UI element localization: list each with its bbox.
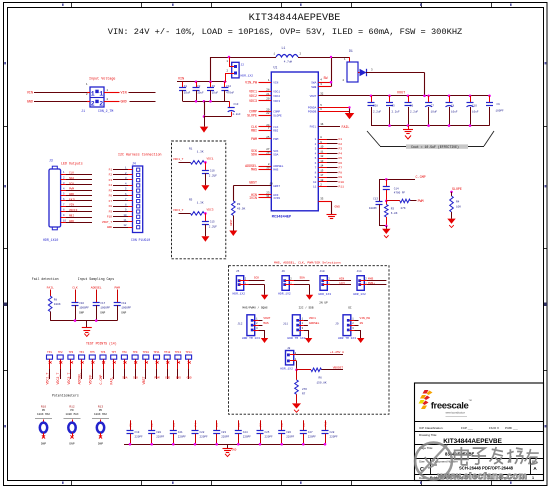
- node SW label: [324, 76, 328, 80]
- svg-text:VDCFF: VDCFF: [69, 209, 78, 212]
- svg-text:R12: R12: [69, 406, 74, 409]
- svg-text:VDC1: VDC1: [273, 91, 280, 94]
- capacitor C2 10uF: [193, 82, 205, 102]
- svg-text:11: 11: [313, 186, 317, 189]
- svg-text:100K: 100K: [54, 303, 61, 306]
- wire J4 pin 4 F4: [109, 182, 133, 187]
- svg-text:Cout = 10.5uF (EFFECTIVE): Cout = 10.5uF (EFFECTIVE): [411, 145, 459, 149]
- svg-text:MHS+: MHS+: [368, 282, 375, 285]
- resistor R8 100K: [48, 290, 60, 321]
- svg-text:4700 PF: 4700 PF: [394, 192, 406, 195]
- capacitor C14 4700PF: [383, 179, 406, 201]
- svg-text:SLOPE: SLOPE: [273, 114, 282, 117]
- svg-text:1: 1: [532, 476, 534, 480]
- svg-text:SCK: SCK: [133, 377, 138, 380]
- svg-text:F9: F9: [339, 176, 343, 179]
- svg-text:DNP: DNP: [79, 312, 84, 315]
- inductor L1 4.7uH: [273, 46, 301, 64]
- resistor R3 6.8K: [385, 201, 398, 226]
- jumper J11: [283, 315, 320, 343]
- svg-text:6.8K: 6.8K: [391, 212, 398, 215]
- svg-text:L1: L1: [282, 46, 286, 50]
- svg-text:F9: F9: [109, 210, 113, 213]
- svg-text:F7: F7: [339, 167, 343, 170]
- capacitor C19 220PF: [127, 420, 143, 444]
- dashed box VDC dividers: [172, 141, 226, 259]
- svg-text:J14: J14: [357, 270, 362, 273]
- wire J3 pin 4 PWM: [61, 187, 92, 190]
- test point TP11: [153, 351, 160, 380]
- svg-text:GND: GND: [176, 377, 181, 380]
- svg-text:19: 19: [270, 183, 274, 186]
- svg-text:PWM: PWM: [251, 137, 257, 141]
- U1 pin 31 IVIN: [249, 195, 271, 200]
- svg-text:32: 32: [320, 92, 324, 95]
- wire J4 pin 12 GND: [107, 224, 133, 229]
- test point TP13: [175, 351, 182, 380]
- svg-text:MHS, ADDSEL, CLK, PWM/SCK Sele: MHS, ADDSEL, CLK, PWM/SCK Selections: [274, 261, 341, 265]
- wire VOUT caps bottom rail: [371, 125, 490, 127]
- title block drawing title: [419, 433, 503, 445]
- svg-text:J6: J6: [282, 270, 286, 273]
- wire J3 pin 5 GND: [61, 193, 92, 196]
- svg-text:C.CMP: C.CMP: [99, 375, 103, 385]
- resistor R7 27K: [295, 370, 308, 404]
- svg-text:10K: 10K: [456, 206, 461, 209]
- U1 pin 5 PGNDA wire: [318, 104, 349, 108]
- node FAIL sampling: [47, 287, 54, 290]
- op-amp U1 MC34844EP body: [271, 66, 318, 220]
- svg-text:HDR_1X2: HDR_1X2: [353, 293, 366, 296]
- label TEST POINTS: [86, 341, 117, 345]
- wire J4 pin 11 VOUT_T: [102, 219, 133, 224]
- wire J1 pin1 VIN right: [104, 91, 156, 95]
- U1 pin 23 HIN: [251, 192, 271, 197]
- svg-text:DNP: DNP: [121, 312, 126, 315]
- U1 LED pin 17 wire F9: [318, 174, 342, 179]
- svg-text:GND: GND: [69, 193, 74, 196]
- svg-text:2.2UF: 2.2UF: [209, 226, 217, 229]
- svg-text:VIN: VIN: [178, 78, 184, 82]
- U1 pin 28 VDC1: [249, 89, 271, 94]
- svg-text:MHS: MHS: [263, 322, 268, 325]
- svg-text:1: 1: [99, 90, 103, 97]
- label Potentiometers: [52, 394, 79, 398]
- capacitor C22 220PF: [192, 420, 208, 444]
- svg-text:C1: C1: [184, 85, 188, 88]
- svg-text:2N UP: 2N UP: [319, 302, 328, 305]
- dashed box selections: [229, 266, 390, 415]
- svg-text:C28: C28: [373, 105, 378, 108]
- svg-text:FAIL: FAIL: [110, 377, 114, 385]
- wire J2 pin2 to VIN rail: [225, 73, 227, 82]
- jumper J5: [233, 270, 269, 300]
- svg-text:R3: R3: [391, 207, 395, 210]
- wire J4 pin 5 F5: [109, 188, 133, 193]
- watermark elecfans: [415, 443, 539, 482]
- svg-text:F8: F8: [339, 171, 343, 174]
- svg-text:FAIL: FAIL: [47, 287, 54, 290]
- svg-text:18: 18: [320, 179, 324, 182]
- svg-text:220PF: 220PF: [178, 436, 186, 439]
- svg-text:F11: F11: [339, 186, 345, 189]
- svg-text:100PF: 100PF: [496, 109, 504, 112]
- wire J2 pin1 drop: [229, 57, 231, 67]
- U1 LED pin 18 wire F10: [318, 179, 344, 184]
- svg-text:C10: C10: [210, 170, 215, 173]
- junction R5: [204, 212, 207, 215]
- title text KIT34844AEPEVBE: [249, 13, 341, 24]
- svg-text:220PF: 220PF: [330, 436, 338, 439]
- svg-text:10uF: 10uF: [472, 111, 479, 114]
- svg-text:VIN: VIN: [121, 91, 127, 95]
- svg-text:F3: F3: [339, 148, 343, 151]
- svg-text:49.9K: 49.9K: [237, 208, 246, 211]
- label LED Outputs: [61, 162, 83, 166]
- node ADDSEL sampling: [91, 287, 102, 290]
- svg-text:R7: R7: [302, 393, 306, 396]
- svg-text:R5: R5: [189, 198, 193, 201]
- jumper J10: [319, 270, 352, 296]
- svg-text:J9: J9: [335, 322, 339, 325]
- subtitle operating conditions: [108, 27, 463, 37]
- ground sampling caps: [82, 321, 92, 337]
- U1 pin 25 PWM: [251, 136, 271, 141]
- ground R9: [229, 231, 237, 237]
- junction ground node: [203, 115, 206, 118]
- U1 LED pin 14 wire F7: [318, 165, 342, 170]
- junction bottom caps rail: [129, 443, 327, 446]
- svg-text:Fail detection: Fail detection: [32, 277, 59, 281]
- svg-text:C16: C16: [79, 302, 84, 305]
- capacitor C28 220PF: [322, 420, 338, 444]
- svg-text:J11: J11: [283, 322, 288, 325]
- svg-text:HDR_1X3: HDR_1X3: [319, 293, 332, 296]
- svg-text:SLOPE: SLOPE: [452, 187, 462, 191]
- U1 internal pin names: [273, 81, 316, 200]
- svg-text:GND: GND: [107, 226, 112, 229]
- ground comp: [382, 229, 390, 238]
- svg-text:J5: J5: [236, 270, 240, 273]
- svg-text:DNP: DNP: [98, 442, 103, 445]
- label selections box title: [274, 261, 341, 265]
- svg-text:GND: GND: [232, 449, 237, 452]
- svg-text:SW: SW: [324, 76, 328, 80]
- svg-text:220PF: 220PF: [265, 436, 273, 439]
- wire J3 pin 1 CLK: [61, 171, 92, 174]
- svg-text:SLOPE: SLOPE: [247, 113, 257, 117]
- svg-text:(2V): (2V): [339, 281, 346, 285]
- svg-text:DNP: DNP: [41, 442, 46, 445]
- ground input caps: [200, 117, 209, 133]
- svg-text:SDA: SDA: [273, 154, 278, 157]
- svg-text:100K MAX: 100K MAX: [94, 413, 107, 416]
- svg-text:VDC1: VDC1: [309, 317, 316, 320]
- svg-text:ADDSEL: ADDSEL: [309, 322, 320, 325]
- label I2C Harness Connection: [118, 153, 162, 157]
- svg-text:PGNDB: PGNDB: [308, 111, 317, 114]
- U1 LED pin 2 wire F11: [318, 184, 344, 189]
- svg-text:10uF: 10uF: [212, 92, 219, 95]
- svg-text:C14: C14: [394, 187, 399, 190]
- junction on bottom rail: [195, 100, 212, 103]
- svg-text:DI: DI: [348, 306, 352, 309]
- svg-text:C24: C24: [243, 431, 248, 434]
- svg-text:U1: U1: [274, 66, 278, 70]
- svg-text:F2: F2: [339, 143, 343, 146]
- capacitor C1 10uF: [179, 82, 191, 102]
- svg-text:C22: C22: [200, 431, 205, 434]
- svg-text:PD: PD: [42, 409, 46, 412]
- svg-text:C13: C13: [373, 197, 378, 200]
- label Fail detection: [32, 277, 59, 281]
- annotation brace Cout: [367, 131, 494, 149]
- capacitor C13 2.2uF: [228, 101, 241, 116]
- svg-text:TP5: TP5: [90, 351, 95, 354]
- test point TP4: [78, 351, 85, 385]
- ground VOUT caps: [403, 126, 413, 139]
- junction PGND: [348, 106, 350, 108]
- U1 pin 30 MHS: [251, 166, 271, 171]
- svg-text:VIN_PW: VIN_PW: [360, 317, 371, 320]
- svg-text:1000PF: 1000PF: [100, 307, 110, 310]
- svg-text:J8: J8: [287, 347, 291, 350]
- svg-text:TP4: TP4: [79, 351, 84, 354]
- wire J4 pin 8 F8: [109, 203, 133, 208]
- connector J2 HDR_1X2: [225, 60, 253, 78]
- wire J4 pin 2 F2: [109, 172, 133, 177]
- svg-text:11: 11: [320, 150, 324, 153]
- title block date sheet row: [419, 476, 534, 480]
- svg-text:VDC1_T: VDC1_T: [173, 158, 184, 161]
- node CLK sampling: [72, 287, 78, 290]
- wire J3 pin 9 RBI: [61, 214, 92, 218]
- U1 pin 27 SCK: [251, 148, 271, 153]
- svg-text:16: 16: [320, 123, 324, 126]
- capacitor C24 220PF: [235, 420, 251, 444]
- node GBST vertical label: [230, 219, 233, 226]
- wire GND to J1 pin2: [34, 101, 90, 103]
- capacitor C9 100PF: [486, 96, 504, 126]
- svg-text:TP3: TP3: [69, 351, 74, 354]
- svg-text:J10: J10: [320, 270, 325, 273]
- svg-text:J3: J3: [49, 159, 53, 163]
- svg-text:VDC2: VDC2: [273, 95, 280, 98]
- svg-text:26: 26: [266, 151, 270, 154]
- U1 pin 8 ADDSEL: [245, 163, 271, 168]
- U1 LED pin 8 wire F1: [318, 136, 342, 141]
- svg-text:21: 21: [266, 93, 270, 96]
- svg-text:F10: F10: [107, 216, 112, 219]
- svg-text:C25: C25: [265, 431, 270, 434]
- svg-text:C27: C27: [308, 431, 313, 434]
- capacitor C26 220PF: [278, 420, 294, 444]
- U1 pin 32 VOUT wire rail: [318, 92, 489, 95]
- svg-text:GND: GND: [165, 377, 170, 380]
- svg-text:4.7uH: 4.7uH: [284, 61, 293, 64]
- svg-text:TP6: TP6: [101, 351, 106, 354]
- wire J1 pin2 GND right: [104, 101, 156, 105]
- jumper J14: [353, 270, 386, 296]
- title block frame: [415, 383, 544, 481]
- svg-text:MHS: MHS: [368, 278, 373, 281]
- svg-text:SWB: SWB: [311, 86, 316, 89]
- svg-text:F4: F4: [339, 152, 343, 155]
- svg-text:TP7: TP7: [111, 351, 116, 354]
- svg-text:CLK: CLK: [69, 172, 74, 175]
- svg-text:Input Voltage: Input Voltage: [89, 77, 115, 82]
- svg-text:30: 30: [266, 166, 270, 169]
- svg-text:TP11: TP11: [153, 351, 160, 354]
- ground U1 GND pin: [327, 215, 337, 219]
- svg-text:10: 10: [313, 181, 317, 184]
- capacitor C20 220PF: [148, 420, 164, 444]
- svg-text:PWM: PWM: [273, 138, 278, 141]
- svg-text:KIT34844AEPEVBE: KIT34844AEPEVBE: [443, 438, 502, 445]
- wire J3 pin 8 VDCFF: [61, 209, 92, 212]
- svg-text:VDCFF: VDCFF: [88, 375, 92, 385]
- test point TP8: [121, 351, 127, 380]
- svg-text:VDC3: VDC3: [273, 100, 280, 103]
- svg-text:HDR TM 1X3: HDR TM 1X3: [338, 337, 356, 340]
- svg-text:TP12: TP12: [164, 351, 171, 354]
- svg-text:100K MAX: 100K MAX: [66, 413, 79, 416]
- svg-text:R1: R1: [189, 147, 193, 150]
- svg-text:MHS: MHS: [251, 168, 257, 172]
- svg-text:Input Sampling Caps: Input Sampling Caps: [78, 277, 114, 281]
- svg-text:1.3K: 1.3K: [197, 151, 204, 154]
- svg-text:GBST: GBST: [273, 185, 280, 188]
- junction SW-D1: [330, 56, 332, 58]
- potentiometer R10 100K: [35, 406, 52, 446]
- capacitor C18 1000PF: [114, 290, 132, 321]
- svg-text:DNP: DNP: [100, 312, 105, 315]
- U1 pin 7 RBI: [251, 127, 271, 132]
- svg-text:2.2uF: 2.2uF: [392, 111, 400, 114]
- svg-text:VDC1_T: VDC1_T: [46, 373, 50, 385]
- ground PGND: [345, 113, 355, 119]
- svg-text:GBST: GBST: [249, 181, 257, 185]
- junction sampling rail: [74, 319, 98, 322]
- svg-text:1000PF: 1000PF: [79, 307, 89, 310]
- svg-text:29: 29: [266, 109, 270, 112]
- svg-text:C3: C3: [212, 85, 216, 88]
- svg-text:RBI: RBI: [251, 128, 257, 132]
- svg-text:C23: C23: [221, 431, 226, 434]
- U1 LED pin 12 wire F5: [318, 155, 342, 160]
- node PWM sampling: [114, 287, 120, 290]
- resistor R9 49.9K: [232, 201, 246, 216]
- wire J3 pin 6 FAIL: [61, 198, 92, 201]
- node VOUT label: [397, 91, 405, 95]
- U1 pin 6 PGNDB wire: [318, 108, 349, 112]
- svg-text:TP8: TP8: [122, 351, 127, 354]
- wire ground drop: [204, 101, 206, 116]
- U1 LED pin 13 wire F6: [318, 160, 342, 165]
- junction VOUT rail: [370, 95, 491, 98]
- test point TP9: [132, 351, 138, 380]
- svg-text:11: 11: [123, 219, 127, 222]
- svg-text:IVIN: IVIN: [249, 196, 257, 200]
- svg-text:R6: R6: [319, 376, 323, 379]
- capacitor C16 1000PF: [72, 290, 90, 321]
- svg-text:220PF: 220PF: [200, 436, 208, 439]
- svg-text:10: 10: [63, 219, 67, 222]
- svg-text:220PF: 220PF: [156, 436, 164, 439]
- svg-text:C13: C13: [234, 103, 239, 106]
- svg-text:HDR_1X10: HDR_1X10: [43, 238, 58, 242]
- label Input Sampling Caps: [78, 277, 114, 281]
- svg-text:VIN: VIN: [273, 81, 278, 84]
- svg-text:ADDSEL: ADDSEL: [78, 373, 82, 385]
- wire to C13: [204, 116, 231, 118]
- U1 pin 21 VDC2: [249, 93, 271, 98]
- svg-text:+1.25V A: +1.25V A: [330, 351, 344, 354]
- svg-text:C19: C19: [135, 431, 140, 434]
- wire J4 pin 3 F3: [109, 177, 133, 182]
- svg-text:15: 15: [320, 169, 324, 172]
- svg-text:VDC2: VDC2: [249, 94, 257, 98]
- svg-text:VDC3_T: VDC3_T: [67, 373, 71, 385]
- svg-text:TP2: TP2: [58, 351, 63, 354]
- svg-text:17: 17: [320, 174, 324, 177]
- U1 pin 4 SWA wire: [318, 79, 331, 83]
- logo freescale: [419, 390, 472, 417]
- connector J3 HDR_1X10: [43, 159, 61, 243]
- svg-text:470nF: 470nF: [226, 92, 234, 95]
- svg-text:HDR_1X2: HDR_1X2: [233, 293, 246, 296]
- svg-text:VDC3: VDC3: [249, 99, 257, 103]
- svg-text:GND: GND: [187, 377, 192, 380]
- U1 pin 1 VIN: [245, 79, 271, 84]
- svg-text:TEST POINTS (14): TEST POINTS (14): [86, 341, 117, 345]
- svg-text:1000PF: 1000PF: [121, 307, 131, 310]
- svg-text:220PF: 220PF: [243, 436, 251, 439]
- svg-text:R8: R8: [54, 299, 58, 302]
- svg-text:C15: C15: [210, 221, 215, 224]
- svg-text:C18: C18: [121, 302, 126, 305]
- svg-text:14: 14: [320, 165, 324, 168]
- svg-text:RBI: RBI: [273, 129, 278, 132]
- svg-text:KIT34844AEPEVBE: KIT34844AEPEVBE: [249, 13, 341, 24]
- svg-text:GBST: GBST: [230, 219, 233, 226]
- svg-text:GND: GND: [27, 101, 33, 105]
- svg-text:J4: J4: [132, 162, 136, 166]
- svg-text:20: 20: [266, 98, 270, 101]
- svg-text:VOUT: VOUT: [310, 95, 317, 98]
- svg-text:VOUT: VOUT: [263, 317, 270, 320]
- label row1 captions: [242, 302, 352, 310]
- svg-text:10: 10: [320, 146, 324, 149]
- ground R4: [447, 219, 455, 228]
- svg-text:J1: J1: [81, 109, 85, 113]
- jumper J12: [237, 315, 270, 343]
- svg-text:VIN: VIN: [69, 204, 74, 207]
- svg-text:HIN: HIN: [339, 278, 344, 281]
- svg-text:VDC2_T: VDC2_T: [56, 373, 60, 385]
- wire J3 pin 7 VIN: [61, 203, 92, 206]
- svg-text:VOUT: VOUT: [397, 91, 405, 95]
- svg-text:10: 10: [123, 214, 127, 217]
- wire PGND join: [349, 107, 351, 113]
- svg-text:TP1: TP1: [47, 351, 52, 354]
- svg-text:C2: C2: [197, 85, 201, 88]
- svg-text:RBI: RBI: [69, 214, 74, 217]
- junction comp top: [385, 178, 388, 181]
- svg-text:GND: GND: [69, 220, 74, 223]
- svg-text:CON PLUG10: CON PLUG10: [131, 238, 150, 242]
- svg-text:C26: C26: [286, 431, 291, 434]
